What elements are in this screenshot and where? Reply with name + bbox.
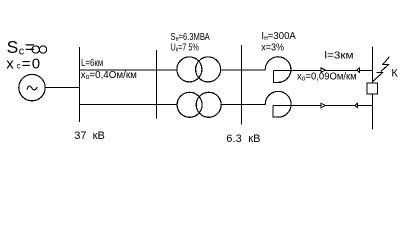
generator G1 circle xyxy=(19,74,45,100)
wire generator to bus1 xyxy=(45,87,79,89)
fault lightning xyxy=(373,57,390,82)
svg-text:l=3км: l=3км xyxy=(324,50,353,61)
label L=6km xyxy=(81,57,103,68)
reactor LR2 arc xyxy=(265,91,291,117)
dimension arrow left wire1 xyxy=(357,68,360,73)
wire reactor2 to fault line xyxy=(273,105,373,107)
label x0=0.09 Om/km xyxy=(297,71,357,82)
svg-text:х=3%: х=3% xyxy=(261,42,284,54)
svg-text:37 кВ: 37 кВ xyxy=(74,130,105,142)
dimension arrow right wire2 xyxy=(321,103,326,108)
label Uk=7.5% xyxy=(171,41,200,53)
transformer T1 circle a xyxy=(177,57,202,82)
dimension arrow right wire1 xyxy=(321,68,326,73)
bus1 37 kV xyxy=(79,47,81,122)
wire reactor1 to fault line xyxy=(274,70,373,72)
label Sn=6.3MVA xyxy=(171,31,210,43)
wire line L circuit 1 xyxy=(79,69,177,71)
svg-text:хо=0,09Ом/км: хо=0,09Ом/км xyxy=(297,71,357,82)
label xc=0 xyxy=(6,55,41,72)
svg-text:6.3 кВ: 6.3 кВ xyxy=(226,133,260,145)
generator sine mark xyxy=(27,86,38,90)
label x0=0.4 Om/km xyxy=(81,70,137,81)
cable line to load K xyxy=(372,46,374,129)
svg-text:хс=0: хс=0 xyxy=(6,55,41,72)
wire line L circuit 2 xyxy=(79,104,177,106)
bus2 line receiving xyxy=(156,50,158,119)
transformer T2 circle b xyxy=(196,92,221,117)
wire T2 to reactor2 xyxy=(221,104,265,106)
reactor LR2 inner corner xyxy=(273,106,278,118)
label 6.3 kV xyxy=(226,133,260,145)
reactor LR1 inner corner xyxy=(274,71,279,83)
svg-text:хо=0,4Ом/км: хо=0,4Ом/км xyxy=(81,70,137,81)
label In=300A xyxy=(261,31,296,42)
svg-text:Uк=7 5%: Uк=7 5% xyxy=(171,41,200,53)
label 37 kV xyxy=(74,130,105,142)
label K fault xyxy=(391,67,398,79)
label Sc=inf infinity sign xyxy=(32,46,39,53)
label l=3km xyxy=(324,50,353,61)
load box xyxy=(367,83,378,94)
reactor LR1 arc xyxy=(265,57,291,83)
transformer T2 circle a xyxy=(177,92,202,117)
transformer T1 circle b xyxy=(196,57,221,82)
label Sc=infinity xyxy=(7,37,36,58)
wire T1 to reactor1 xyxy=(221,69,266,71)
bus3 6.3 kV xyxy=(241,45,243,125)
svg-text:L=6км: L=6км xyxy=(81,57,103,68)
label x=3% xyxy=(261,42,284,54)
dimension arrow left wire2 xyxy=(355,103,358,108)
svg-text:К: К xyxy=(391,67,398,79)
